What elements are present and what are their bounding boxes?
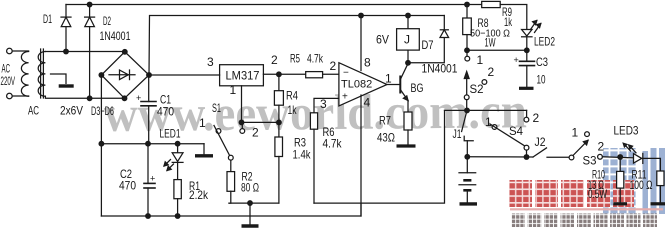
relay coil J box — [407, 16, 409, 29]
transistor Q1 BG base bar — [399, 77, 401, 93]
resistor R3 — [278, 122, 280, 137]
ground below C3 — [519, 87, 534, 90]
resistor R1 — [174, 180, 181, 199]
center tap ground bar — [59, 84, 74, 87]
svg-text:C3: C3 — [536, 55, 548, 69]
bridge internal diode — [109, 74, 135, 76]
svg-text:1: 1 — [485, 115, 492, 129]
svg-text:J: J — [404, 33, 410, 47]
diode D7 — [440, 30, 449, 38]
wire pin2 output — [263, 73, 305, 75]
svg-text:S4: S4 — [509, 124, 523, 138]
LED3 emission arrows — [625, 145, 631, 152]
LED2 emission arrows — [531, 21, 537, 30]
wire bridge plus up and over to D7 (top distribution wire) — [149, 16, 444, 76]
svg-text:J1: J1 — [453, 127, 462, 141]
node R1 bottom on rail — [175, 214, 180, 219]
LED3 — [634, 154, 642, 164]
svg-text:D1: D1 — [43, 12, 52, 26]
svg-text:2: 2 — [271, 53, 278, 67]
svg-text:4.7k: 4.7k — [307, 52, 324, 66]
center tap wire — [51, 74, 67, 83]
switch S1 lever and pole — [214, 126, 230, 156]
wire pin1 to R4 bottom — [242, 121, 279, 123]
svg-text:+: + — [150, 174, 155, 184]
regulator U1 LM317 box — [220, 65, 264, 86]
svg-text:2: 2 — [330, 59, 337, 73]
svg-text:R7: R7 — [379, 114, 391, 128]
switch S4 contact 2 drop — [526, 110, 528, 117]
LED1 emission arrows — [164, 160, 171, 167]
node LED1 top on midwire — [175, 141, 180, 146]
ground below R7 — [397, 144, 416, 147]
bottom rail wire — [101, 203, 361, 216]
wire collector to D7 — [408, 38, 444, 63]
svg-text:LED1: LED1 — [160, 127, 181, 141]
node battery top junction — [465, 155, 470, 160]
ground below R11 — [651, 202, 665, 205]
svg-text:TL082: TL082 — [341, 79, 372, 91]
wire horizontal at 110 — [445, 109, 527, 111]
switch S2 contact 1 — [466, 52, 468, 56]
node S2/J1 junction — [465, 108, 470, 113]
wire J2 fixed to S3 — [547, 156, 569, 158]
node R4 bottom junction — [277, 120, 282, 125]
AC source terminal bottom — [7, 93, 13, 99]
switch S3 contact 2 — [598, 154, 603, 159]
svg-text:D7: D7 — [422, 38, 434, 52]
capacitor C2 — [147, 144, 149, 184]
resistor R2 — [230, 160, 232, 172]
svg-text:1: 1 — [199, 116, 206, 130]
svg-text:J2: J2 — [535, 135, 546, 149]
svg-text:100 Ω: 100 Ω — [630, 178, 653, 192]
svg-text:2: 2 — [598, 140, 605, 154]
resistor R10 — [619, 157, 621, 171]
relay contact J1 lever — [462, 110, 467, 131]
svg-text:1: 1 — [230, 83, 237, 97]
node C2 bottom on rail — [146, 214, 151, 219]
diode D2 — [89, 5, 91, 18]
svg-text:AC: AC — [28, 104, 39, 118]
svg-text:1: 1 — [477, 53, 484, 67]
wire pin3 input — [149, 74, 220, 76]
svg-text:1: 1 — [572, 126, 579, 140]
secondary top wire to bridge — [45, 51, 124, 53]
switch S3 pole circle — [569, 155, 574, 160]
red watermark char 4 — [587, 180, 610, 207]
switch S1 contact 2 — [241, 125, 243, 129]
switch S2 wiper arrow — [466, 77, 468, 95]
blue watermark char 2 (vertical strokes) — [643, 151, 649, 214]
svg-text:3: 3 — [320, 97, 327, 111]
slogan char row — [511, 214, 525, 228]
resistor R4 — [278, 74, 280, 90]
svg-text:8: 8 — [364, 56, 371, 70]
op-amp U2 TL082 triangle — [339, 63, 387, 106]
secondary bottom wire to bridge — [45, 96, 124, 98]
node D2 top rail junction — [87, 2, 92, 7]
svg-text:470: 470 — [119, 179, 136, 193]
wire op-amp output pin1 — [387, 84, 400, 86]
svg-text:LED2: LED2 — [534, 35, 555, 49]
battery B1 — [459, 172, 476, 174]
LED1 — [177, 144, 179, 153]
svg-text:1k: 1k — [504, 15, 513, 29]
switch S1 contact 1 — [216, 129, 221, 134]
svg-text:1k: 1k — [288, 103, 298, 117]
svg-text:6V: 6V — [376, 33, 389, 47]
svg-text:2: 2 — [252, 126, 259, 140]
svg-text:S2: S2 — [470, 82, 484, 96]
switch S4 lever — [490, 124, 525, 146]
svg-text:4.7k: 4.7k — [323, 137, 343, 151]
red watermark char 1 — [509, 180, 532, 207]
switch S4 contact 1 — [492, 125, 497, 130]
node R10 top junction — [618, 155, 623, 160]
svg-text:+: + — [136, 93, 141, 103]
resistor R7 — [407, 101, 409, 113]
resistor R8 — [466, 5, 468, 19]
node R8 top rail junction — [465, 2, 470, 7]
svg-text:+: + — [514, 55, 519, 65]
wire pin3 input — [314, 98, 339, 112]
wire LED3 to R11 — [643, 158, 661, 171]
wire left vertical from bridge left corner down to bottom rail — [100, 75, 102, 216]
svg-text:2: 2 — [488, 65, 495, 79]
svg-text:1: 1 — [385, 72, 392, 86]
resistor R5 — [306, 72, 323, 78]
capacitor C3 — [520, 60, 535, 62]
relay contact J2 lever — [533, 148, 547, 157]
wire AC top to primary — [12, 50, 28, 52]
resistor R11 — [657, 171, 664, 186]
wire battery junction to S4/J2 — [467, 156, 533, 158]
switch S4 pole — [524, 145, 529, 150]
svg-text:0.5W: 0.5W — [588, 187, 607, 201]
red watermark char 5 — [613, 180, 634, 207]
node R8 bottom junction — [465, 48, 470, 53]
svg-text:+: + — [342, 92, 348, 103]
node LM317 output junction — [277, 72, 282, 77]
bridge rectifier D3-D6 diamond — [101, 52, 149, 99]
red watermark char 2 — [535, 180, 558, 207]
transformer core — [40, 49, 42, 98]
wire R8 to LED2 bottom — [467, 49, 527, 51]
node S4 pole junction — [524, 155, 529, 160]
node C1-C2 midpoint — [146, 141, 151, 146]
svg-text:1N4001: 1N4001 — [100, 29, 131, 43]
switch S2 contact 2 — [482, 80, 487, 85]
svg-text:R5: R5 — [290, 52, 300, 66]
svg-text:−: − — [343, 68, 349, 79]
node pin1 junction — [239, 120, 244, 125]
svg-text:D3−D6: D3−D6 — [91, 104, 114, 118]
svg-text:LED3: LED3 — [614, 124, 639, 138]
wire LM317 pin1 down — [241, 86, 243, 123]
svg-text:S1: S1 — [212, 101, 221, 115]
node pin8 top junction — [359, 13, 364, 18]
svg-text:3: 3 — [207, 55, 214, 69]
svg-text:2: 2 — [533, 111, 540, 125]
wire R2-R3 bottom segment — [229, 202, 279, 204]
svg-text:R4: R4 — [286, 89, 298, 103]
svg-text:43Ω: 43Ω — [377, 131, 395, 145]
resistor R9 — [482, 1, 501, 7]
node J coil top junction — [406, 13, 411, 18]
transformer T1 primary winding — [21, 52, 28, 97]
LED2 — [522, 30, 532, 37]
svg-text:10: 10 — [537, 73, 546, 87]
wire rail to LED2 — [500, 5, 527, 30]
diode D1 — [65, 5, 67, 18]
red watermark char 3 — [561, 180, 584, 207]
node collector junction — [406, 61, 411, 66]
switch S2 pole circle — [464, 95, 469, 100]
svg-text:2x6V: 2x6V — [60, 104, 83, 118]
resistor R6 — [310, 113, 317, 129]
ground below battery — [460, 202, 478, 205]
node midwire left junction — [99, 141, 104, 146]
svg-text:4: 4 — [364, 96, 371, 110]
switch S3 contact 1 — [585, 132, 590, 137]
svg-text:S3: S3 — [583, 154, 597, 168]
blue watermark char 1 — [603, 148, 637, 214]
wire lower horizontal segment R6 to J1 riser — [314, 110, 445, 203]
svg-text:1N4001: 1N4001 — [422, 62, 458, 76]
capacitor C1 — [148, 75, 150, 102]
transformer T1 secondary winding — [38, 52, 45, 97]
svg-text:LM317: LM317 — [226, 71, 260, 83]
wire AC bottom to primary — [12, 95, 28, 97]
AC source terminal top — [7, 48, 13, 54]
svg-text:D2: D2 — [103, 14, 111, 28]
svg-text:1W: 1W — [485, 36, 496, 50]
node LED2 bottom junction — [525, 48, 530, 53]
wire S3 to LED3 — [602, 157, 633, 158]
svg-text:BG: BG — [411, 81, 424, 95]
ground below R10 — [613, 202, 627, 205]
node D1-secondary junction — [64, 49, 69, 54]
svg-text:80 Ω: 80 Ω — [241, 181, 259, 195]
node bridge bottom corner — [122, 96, 127, 101]
node bridge right corner — [147, 73, 152, 78]
node ground junction on R2R3 wire — [248, 201, 253, 206]
switch S3 lever — [573, 140, 588, 155]
wire midpoint horizontal — [101, 143, 204, 145]
svg-text:2.2k: 2.2k — [189, 188, 209, 202]
BG emitter with arrow — [400, 90, 408, 101]
ground of midpoint wire — [203, 144, 205, 154]
wire pin8 V+ — [360, 16, 362, 71]
svg-text:470: 470 — [157, 105, 174, 119]
svg-text:220V: 220V — [1, 74, 15, 88]
ground below R2R3 wire — [249, 203, 251, 225]
node bridge top corner — [123, 50, 128, 55]
svg-text:1.4k: 1.4k — [293, 148, 312, 162]
BG collector — [400, 64, 408, 80]
node bridge left corner — [99, 73, 104, 78]
top positive rail wire — [66, 4, 482, 6]
wire pin4 V- down to rails — [360, 95, 362, 216]
J1 fixed contact — [464, 136, 473, 141]
node D2-secondary-bottom junction — [87, 96, 92, 101]
pink underline — [510, 208, 663, 210]
